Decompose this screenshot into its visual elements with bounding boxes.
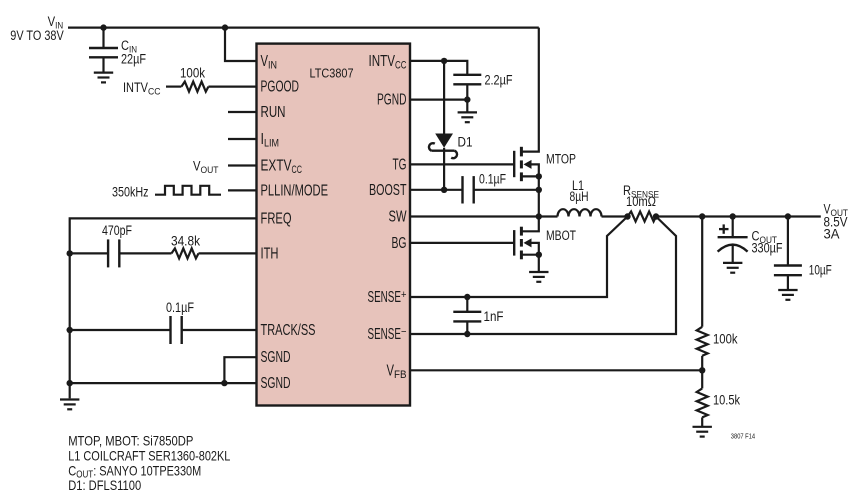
wire SGND2 to left rail	[70, 382, 257, 384]
diode D1 schottky	[429, 134, 473, 159]
node junction RSENSE right	[653, 213, 659, 219]
node junction rail COUT	[730, 213, 736, 219]
capacitor 0.1uF TRACK/SS	[166, 300, 194, 344]
node junction left rail bottom	[67, 380, 73, 386]
node junction boost at MTOP	[536, 187, 542, 193]
node junction BOOST D1	[441, 187, 447, 193]
svg-text:10mΩ: 10mΩ	[626, 194, 656, 209]
svg-text:0.1µF: 0.1µF	[166, 300, 194, 315]
svg-text:INTVCC: INTVCC	[123, 80, 161, 97]
svg-text:MBOT: MBOT	[546, 228, 576, 243]
svg-text:BG: BG	[392, 235, 407, 252]
wire rail to 100k	[701, 217, 703, 327]
wire 34.8k to ITH pin	[199, 252, 257, 254]
wire SENSE+ line	[410, 217, 628, 298]
node junction SENSE- 1nF	[464, 331, 470, 337]
svg-text:FREQ: FREQ	[261, 210, 292, 227]
wire 470pF to 34.8k	[119, 252, 171, 254]
svg-text:2.2µF: 2.2µF	[485, 73, 513, 88]
svg-text:TRACK/SS: TRACK/SS	[261, 322, 316, 339]
svg-text:34.8k: 34.8k	[171, 233, 200, 248]
node VOUT output labels	[824, 202, 849, 242]
svg-text:100k: 100k	[180, 65, 205, 80]
op-amp U1 LTC3807 IC body	[257, 44, 411, 406]
wire ILIM pin stub	[228, 138, 257, 140]
svg-text:3A: 3A	[824, 227, 840, 242]
wire PGND pin to cap	[410, 98, 467, 100]
wire EXTVCC pin stub	[228, 164, 257, 166]
node VIN input label	[10, 14, 63, 43]
node junction PGND	[464, 96, 470, 102]
resistor 100k feedback	[697, 327, 738, 356]
node junction TRACK/SS rail	[67, 327, 73, 333]
svg-text:SENSE−: SENSE−	[368, 326, 407, 343]
node junction SW	[536, 213, 542, 219]
wire BG pin to MBOT gate	[410, 242, 514, 244]
node junction MTOP source	[536, 173, 542, 179]
svg-text:PGOOD: PGOOD	[261, 79, 300, 96]
node junction rail 10uF	[785, 213, 791, 219]
node junction ITH rail	[67, 250, 73, 256]
svg-text:SGND: SGND	[261, 375, 291, 392]
wire TG pin to MTOP gate	[410, 163, 514, 165]
wire 10.5k to ground	[701, 417, 703, 426]
wire VFB line	[410, 369, 702, 371]
svg-text:10µF: 10µF	[809, 263, 832, 278]
svg-text:350kHz: 350kHz	[112, 185, 149, 200]
wire RUN pin stub	[228, 111, 257, 113]
svg-text:D1: DFLS1100: D1: DFLS1100	[68, 477, 141, 493]
wire output rail	[656, 215, 821, 217]
wire inductor to RSENSE	[602, 215, 628, 217]
wire left rail vertical	[69, 253, 71, 398]
resistor RSENSE 10mohm	[623, 183, 659, 222]
ground MBOT	[529, 272, 548, 282]
clock squarewave symbol	[155, 186, 221, 195]
svg-text:MTOP: MTOP	[546, 152, 576, 167]
svg-text:0.1µF: 0.1µF	[479, 171, 506, 186]
wire SGND1 stub	[224, 357, 256, 383]
node junction VFB divider	[699, 367, 705, 373]
svg-text:VOUT: VOUT	[193, 159, 219, 176]
wire VIN pin drop	[225, 28, 257, 61]
wire boost cap to MTOP source	[474, 189, 539, 191]
svg-text:PLLIN/MODE: PLLIN/MODE	[261, 182, 329, 199]
svg-text:8µH: 8µH	[570, 189, 589, 204]
inductor L1	[558, 178, 602, 217]
node junction INTVCC D1	[441, 58, 447, 64]
wire D1 cathode to BOOST	[443, 148, 445, 190]
svg-text:100k: 100k	[713, 332, 738, 347]
wire 0.1uF to TRACK/SS pin	[182, 329, 257, 331]
op-amp U1 LTC3807 pin labels	[261, 53, 407, 392]
ground feedback divider	[693, 427, 712, 437]
wire PLLIN/MODE pin stub	[228, 189, 257, 191]
svg-text:L1 COILCRAFT SER1360-802KL: L1 COILCRAFT SER1360-802KL	[68, 447, 230, 463]
svg-text:SGND: SGND	[261, 349, 291, 366]
resistor 34.8k	[171, 233, 200, 258]
resistor 10.5k feedback	[697, 388, 741, 417]
svg-text:D1: D1	[458, 135, 473, 150]
ground 10uF	[778, 290, 797, 300]
svg-text:LTC3807: LTC3807	[310, 67, 354, 81]
capacitor 2.2uF	[453, 73, 512, 100]
node junction MBOT source	[536, 252, 542, 258]
ground CIN	[94, 73, 113, 83]
node junction rail 100k	[699, 213, 705, 219]
svg-text:RUN: RUN	[261, 104, 286, 121]
capacitor CIN	[89, 28, 146, 72]
node junction RSENSE left	[624, 213, 630, 219]
capacitor COUT electrolytic	[718, 217, 783, 263]
svg-text:MTOP, MBOT: Si7850DP: MTOP, MBOT: Si7850DP	[68, 432, 193, 448]
node junction SGND tie	[221, 380, 227, 386]
wire VIN top rail	[68, 27, 539, 29]
svg-text:SENSE+: SENSE+	[368, 289, 407, 306]
resistor 100k pullup	[180, 65, 208, 91]
wire INTVCC pin to 2.2uF	[410, 61, 467, 75]
svg-text:BOOST: BOOST	[369, 182, 407, 199]
transistor MTOP	[514, 28, 576, 217]
transistor MBOT	[514, 217, 576, 272]
node junction VIN pin drop	[222, 24, 228, 30]
capacitor 470pF	[102, 223, 132, 267]
wire D1 net vertical	[443, 61, 445, 134]
ground PGND	[458, 112, 477, 122]
wire ITH to 470pF	[70, 252, 108, 254]
wire INTVCC to 100k	[166, 85, 181, 87]
svg-text:22µF: 22µF	[121, 52, 146, 67]
wire FREQ to left rail	[70, 218, 257, 253]
wire SENSE- line	[410, 217, 676, 335]
ground COUT	[723, 263, 742, 273]
svg-text:470pF: 470pF	[102, 223, 132, 238]
ground left rail	[60, 400, 79, 410]
wire BOOST pin to cap	[410, 189, 463, 191]
node junction SENSE+ 1nF	[464, 294, 470, 300]
svg-text:TG: TG	[393, 156, 407, 173]
svg-text:9V TO 38V: 9V TO 38V	[10, 28, 63, 43]
svg-text:SW: SW	[389, 209, 407, 226]
node junction CIN tap	[100, 24, 106, 30]
notes bottom left	[68, 432, 230, 493]
wire PGND to ground	[466, 100, 468, 112]
svg-text:330µF: 330µF	[752, 240, 783, 255]
svg-text:PGND: PGND	[377, 92, 407, 109]
wire rail to 0.1uF	[70, 329, 171, 331]
capacitor 1nF	[453, 297, 503, 334]
wire 100k to VFB node	[701, 356, 703, 389]
wire 100k to PGOOD pin	[208, 85, 256, 87]
svg-text:3807 F14: 3807 F14	[731, 431, 755, 440]
capacitor 10uF	[774, 217, 832, 290]
capacitor 0.1uF boost	[463, 171, 507, 203]
svg-text:10.5k: 10.5k	[713, 392, 740, 407]
svg-text:1nF: 1nF	[484, 309, 504, 324]
wire SW pin to inductor	[410, 215, 558, 217]
svg-text:ITH: ITH	[261, 245, 279, 262]
